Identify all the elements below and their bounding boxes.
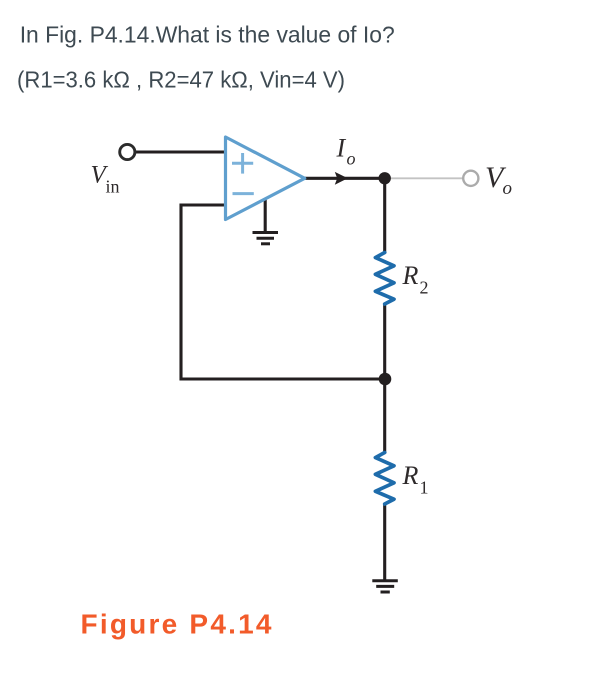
svg-text:(R1=3.6 kΩ , R2=47 kΩ, Vin=4 V: (R1=3.6 kΩ , R2=47 kΩ, Vin=4 V) xyxy=(17,66,345,92)
svg-text:in: in xyxy=(106,177,120,197)
svg-text:2: 2 xyxy=(420,277,429,297)
svg-text:Figure P4.14: Figure P4.14 xyxy=(81,609,272,640)
svg-text:R: R xyxy=(402,461,419,490)
svg-text:o: o xyxy=(503,178,513,199)
svg-text:In Fig. P4.14.What is the valu: In Fig. P4.14.What is the value of Io? xyxy=(20,21,395,47)
svg-text:I: I xyxy=(336,134,347,163)
svg-text:o: o xyxy=(347,149,356,169)
svg-text:R: R xyxy=(402,261,419,290)
svg-text:1: 1 xyxy=(420,477,429,497)
